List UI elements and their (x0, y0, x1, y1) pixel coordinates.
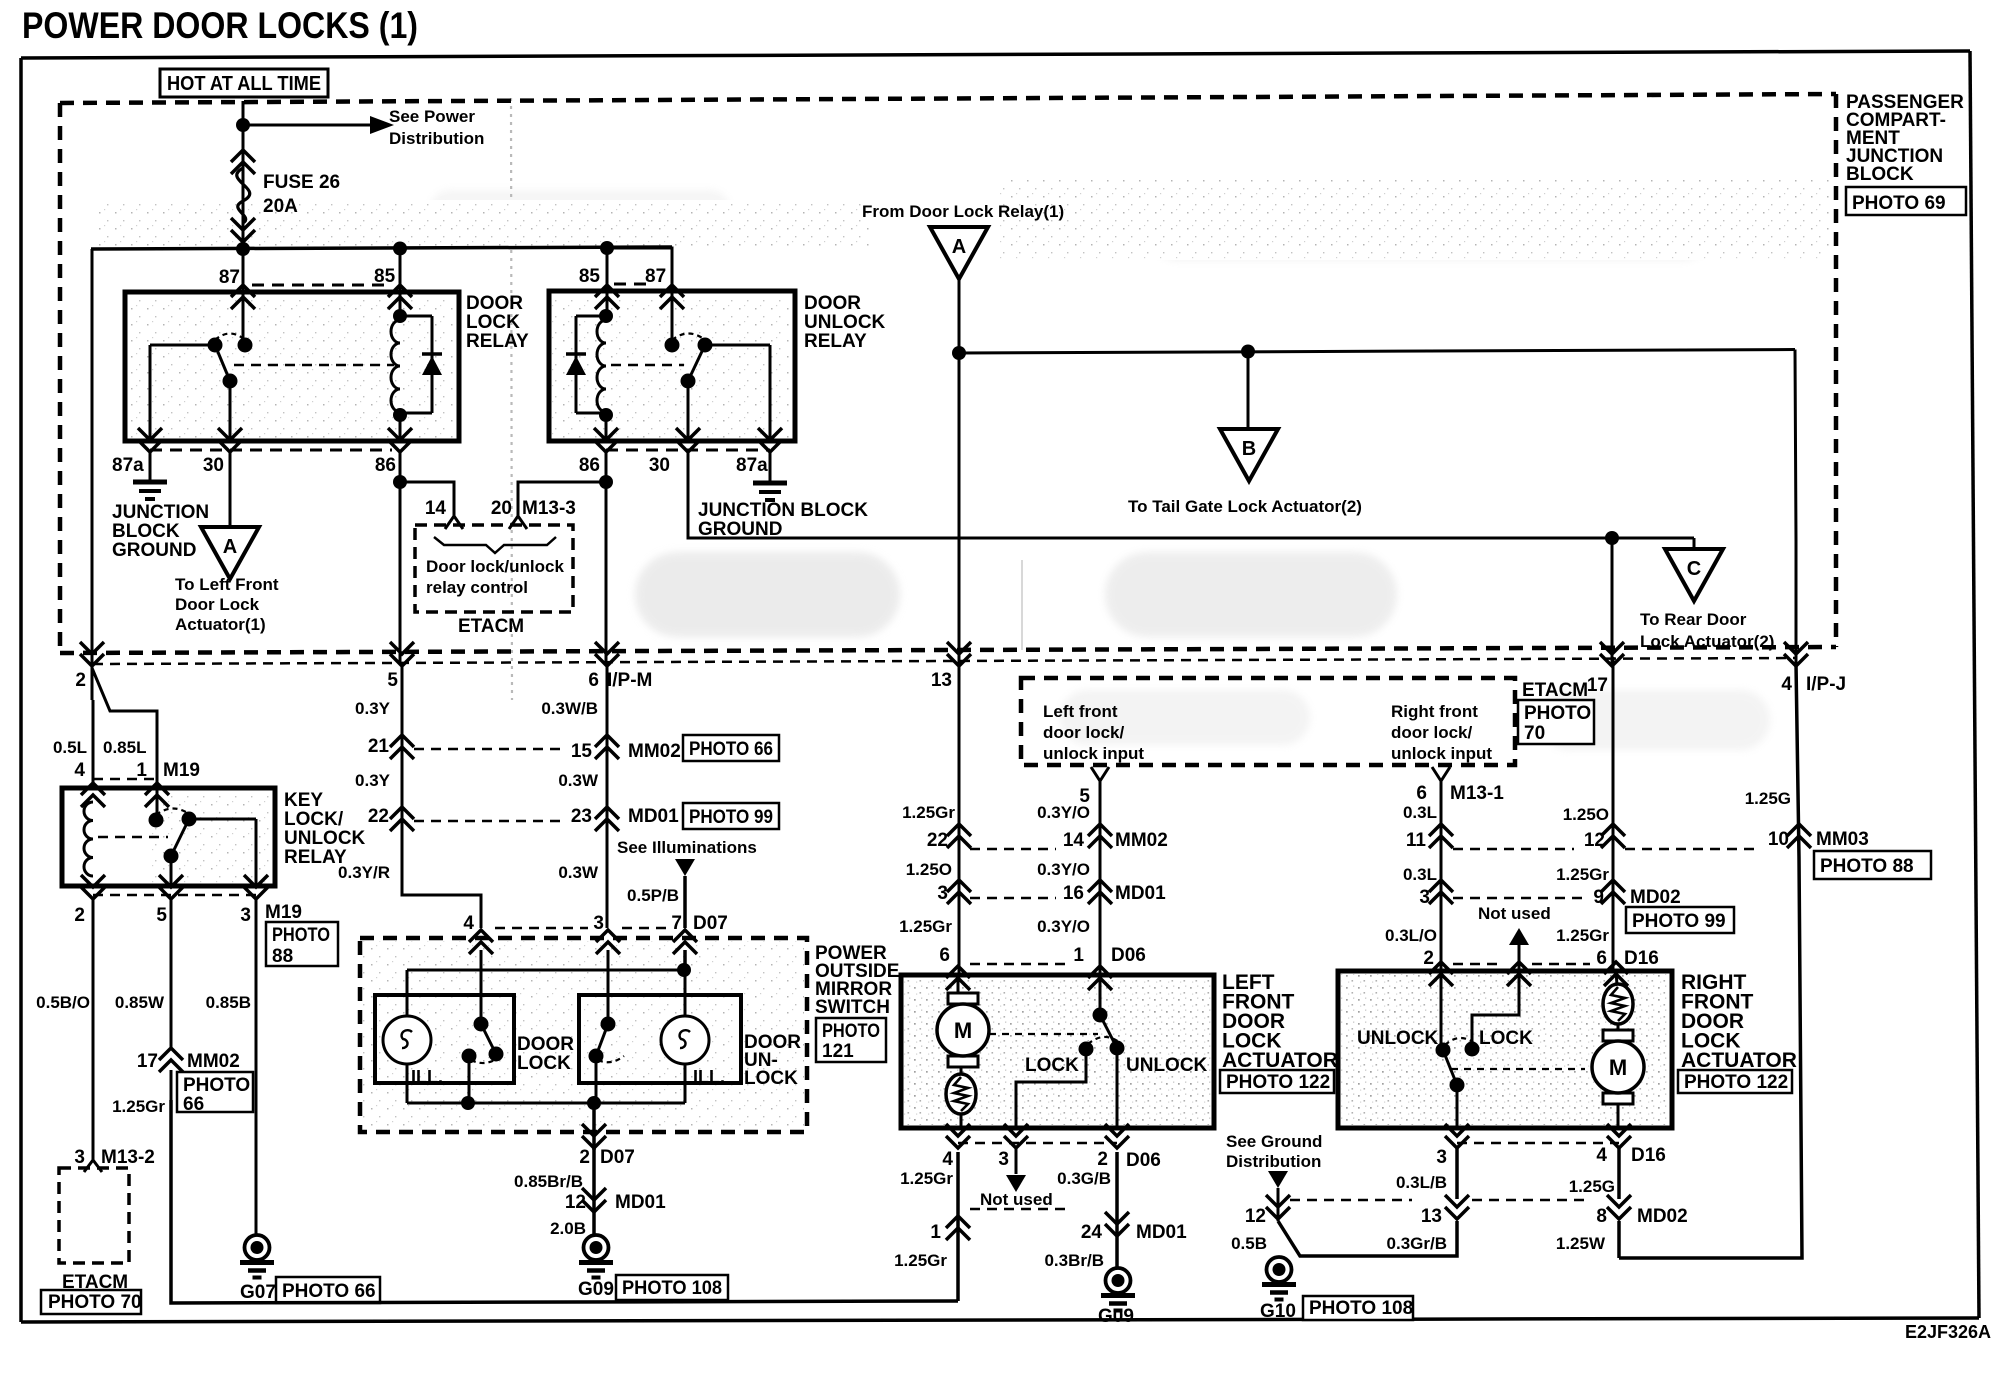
svg-text:14: 14 (425, 498, 447, 519)
svg-text:0.85W: 0.85W (115, 993, 165, 1012)
svg-text:1.25Gr: 1.25Gr (112, 1097, 165, 1116)
svg-text:M: M (1609, 1055, 1627, 1080)
svg-text:3: 3 (998, 1149, 1009, 1170)
svg-text:G07: G07 (240, 1282, 276, 1303)
svg-text:UNLOCK: UNLOCK (1357, 1028, 1439, 1049)
svg-text:PHOTO: PHOTO (272, 925, 330, 946)
svg-text:3: 3 (74, 1147, 85, 1168)
svg-text:1.25Gr: 1.25Gr (899, 917, 952, 936)
svg-text:ETACM: ETACM (458, 616, 524, 637)
svg-text:3: 3 (937, 883, 948, 904)
svg-text:DOOR: DOOR (804, 293, 861, 314)
svg-text:PHOTO 122: PHOTO 122 (1684, 1072, 1788, 1093)
svg-text:87: 87 (645, 266, 666, 287)
svg-text:66: 66 (183, 1094, 204, 1115)
svg-text:Distribution: Distribution (389, 129, 484, 148)
svg-text:Door Lock: Door Lock (175, 595, 260, 614)
svg-text:88: 88 (272, 946, 293, 967)
svg-text:1: 1 (1073, 945, 1084, 966)
svg-text:PHOTO 88: PHOTO 88 (1820, 856, 1914, 877)
svg-text:JUNCTION BLOCK: JUNCTION BLOCK (698, 500, 868, 521)
svg-text:86: 86 (375, 455, 396, 476)
svg-text:SWITCH: SWITCH (815, 997, 890, 1018)
svg-text:HOT AT ALL TIME: HOT AT ALL TIME (167, 73, 321, 95)
svg-text:D16: D16 (1624, 948, 1659, 969)
svg-text:MD02: MD02 (1630, 887, 1681, 908)
svg-text:MD01: MD01 (615, 1192, 666, 1213)
svg-text:0.5B/O: 0.5B/O (36, 993, 90, 1012)
svg-text:2: 2 (74, 905, 85, 926)
svg-text:0.85L: 0.85L (103, 738, 146, 757)
svg-text:21: 21 (368, 736, 390, 757)
svg-text:PHOTO 70: PHOTO 70 (48, 1292, 142, 1313)
svg-text:M13-3: M13-3 (522, 498, 576, 519)
svg-text:0.3Y/R: 0.3Y/R (338, 863, 390, 882)
svg-text:DOOR: DOOR (466, 293, 523, 314)
svg-text:1.25G: 1.25G (1569, 1177, 1615, 1196)
svg-text:6: 6 (588, 670, 599, 691)
svg-text:0.3Y: 0.3Y (355, 771, 391, 790)
svg-text:4: 4 (74, 760, 85, 781)
svg-text:87a: 87a (112, 455, 144, 476)
svg-text:6: 6 (939, 945, 950, 966)
svg-text:PHOTO: PHOTO (1524, 703, 1591, 724)
svg-text:2: 2 (75, 670, 86, 691)
svg-text:LOCK: LOCK (744, 1068, 798, 1089)
svg-text:9: 9 (1593, 887, 1604, 908)
svg-text:0.3W: 0.3W (558, 771, 599, 790)
svg-text:LOCK: LOCK (1025, 1055, 1079, 1076)
svg-text:2: 2 (579, 1147, 590, 1168)
svg-text:70: 70 (1524, 723, 1545, 744)
svg-text:JUNCTION: JUNCTION (112, 502, 209, 523)
svg-text:1.25Gr: 1.25Gr (1556, 926, 1609, 945)
svg-text:POWER DOOR LOCKS (1): POWER DOOR LOCKS (1) (22, 5, 418, 46)
svg-text:17: 17 (137, 1051, 158, 1072)
svg-text:20A: 20A (263, 196, 298, 217)
svg-text:G10: G10 (1260, 1301, 1296, 1322)
svg-text:D07: D07 (693, 913, 728, 934)
svg-text:RELAY: RELAY (804, 331, 867, 352)
svg-text:Actuator(1): Actuator(1) (175, 615, 266, 634)
svg-text:24: 24 (1081, 1222, 1103, 1243)
svg-text:From Door Lock Relay(1): From Door Lock Relay(1) (862, 202, 1064, 221)
svg-text:door lock/: door lock/ (1391, 723, 1473, 742)
svg-text:PHOTO 99: PHOTO 99 (689, 807, 773, 828)
svg-text:0.3L/O: 0.3L/O (1385, 926, 1437, 945)
svg-text:6: 6 (1596, 948, 1607, 969)
svg-text:6: 6 (1416, 783, 1427, 804)
svg-text:0.3L/B: 0.3L/B (1396, 1173, 1447, 1192)
svg-text:MD01: MD01 (1115, 883, 1166, 904)
svg-text:PHOTO: PHOTO (822, 1021, 880, 1042)
svg-text:PHOTO 108: PHOTO 108 (1309, 1298, 1413, 1319)
svg-text:12: 12 (1245, 1206, 1266, 1227)
svg-text:12: 12 (565, 1192, 586, 1213)
svg-text:4: 4 (942, 1149, 953, 1170)
svg-text:3: 3 (1419, 887, 1430, 908)
svg-text:87: 87 (219, 267, 240, 288)
svg-text:To Tail Gate Lock Actuator(2): To Tail Gate Lock Actuator(2) (1128, 497, 1362, 516)
svg-text:MD01: MD01 (1136, 1222, 1187, 1243)
svg-text:To Left Front: To Left Front (175, 575, 279, 594)
svg-text:0.3Y/O: 0.3Y/O (1037, 860, 1090, 879)
svg-text:PHOTO 69: PHOTO 69 (1852, 193, 1946, 214)
svg-text:10: 10 (1768, 829, 1789, 850)
svg-text:UNLOCK: UNLOCK (804, 312, 886, 333)
svg-text:G09: G09 (1098, 1306, 1134, 1327)
svg-text:2.0B: 2.0B (550, 1219, 586, 1238)
svg-text:D07: D07 (600, 1147, 635, 1168)
svg-text:ACTUATOR: ACTUATOR (1222, 1049, 1338, 1072)
svg-text:0.3W/B: 0.3W/B (541, 699, 598, 718)
svg-text:0.3Y/O: 0.3Y/O (1037, 917, 1090, 936)
svg-text:Door lock/unlock: Door lock/unlock (426, 557, 564, 576)
svg-text:relay control: relay control (426, 578, 528, 597)
svg-text:0.3G/B: 0.3G/B (1057, 1169, 1111, 1188)
svg-text:30: 30 (649, 455, 670, 476)
svg-text:0.5L: 0.5L (53, 738, 87, 757)
svg-text:G09: G09 (578, 1279, 614, 1300)
svg-text:13: 13 (931, 670, 952, 691)
svg-text:D16: D16 (1631, 1145, 1666, 1166)
svg-text:22: 22 (368, 806, 389, 827)
svg-text:unlock input: unlock input (1043, 744, 1144, 763)
svg-text:E2JF326A: E2JF326A (1905, 1322, 1991, 1342)
svg-text:2: 2 (1097, 1149, 1108, 1170)
svg-text:To Rear Door: To Rear Door (1640, 610, 1747, 629)
svg-text:MM02: MM02 (628, 741, 681, 762)
svg-text:5: 5 (387, 670, 398, 691)
svg-text:Not used: Not used (980, 1190, 1053, 1209)
svg-text:1.25Gr: 1.25Gr (902, 803, 955, 822)
svg-text:DOOR: DOOR (517, 1034, 574, 1055)
svg-text:15: 15 (571, 741, 593, 762)
svg-text:20: 20 (491, 498, 512, 519)
svg-text:BLOCK: BLOCK (1846, 164, 1914, 185)
svg-text:0.3Y/O: 0.3Y/O (1037, 803, 1090, 822)
svg-text:0.5B: 0.5B (1231, 1234, 1267, 1253)
svg-text:0.5P/B: 0.5P/B (627, 886, 679, 905)
svg-text:D06: D06 (1126, 1150, 1161, 1171)
svg-text:17: 17 (1587, 675, 1608, 696)
svg-text:0.85B: 0.85B (206, 993, 251, 1012)
svg-text:3: 3 (1436, 1147, 1447, 1168)
svg-text:4: 4 (463, 913, 474, 934)
svg-text:1.25W: 1.25W (1556, 1234, 1606, 1253)
svg-text:ILL.: ILL. (411, 1067, 443, 1087)
svg-text:Not used: Not used (1478, 904, 1551, 923)
svg-text:M19: M19 (163, 760, 200, 781)
svg-text:0.3Br/B: 0.3Br/B (1044, 1251, 1104, 1270)
svg-text:1.25Gr: 1.25Gr (1556, 865, 1609, 884)
svg-text:86: 86 (579, 455, 600, 476)
svg-text:LOCK/: LOCK/ (284, 809, 344, 830)
svg-text:GROUND: GROUND (112, 540, 196, 561)
svg-text:1.25O: 1.25O (906, 860, 952, 879)
svg-text:I/P-M: I/P-M (607, 670, 652, 691)
svg-text:RELAY: RELAY (466, 331, 529, 352)
svg-text:door lock/: door lock/ (1043, 723, 1125, 742)
svg-text:ILL.: ILL. (693, 1067, 725, 1087)
svg-text:PHOTO: PHOTO (183, 1075, 250, 1096)
svg-text:M19: M19 (265, 902, 302, 923)
svg-text:1.25G: 1.25G (1745, 789, 1791, 808)
svg-text:ACTUATOR: ACTUATOR (1681, 1049, 1797, 1072)
svg-text:1.25Gr: 1.25Gr (894, 1251, 947, 1270)
svg-text:Distribution: Distribution (1226, 1152, 1321, 1171)
svg-text:121: 121 (822, 1041, 854, 1062)
svg-text:11: 11 (1406, 830, 1427, 851)
svg-text:4: 4 (1596, 1145, 1607, 1166)
svg-text:D06: D06 (1111, 945, 1146, 966)
svg-text:C: C (1687, 558, 1701, 580)
svg-text:4: 4 (1781, 674, 1792, 695)
svg-text:MD02: MD02 (1637, 1206, 1688, 1227)
svg-text:unlock input: unlock input (1391, 744, 1492, 763)
svg-text:Right front: Right front (1391, 702, 1478, 721)
svg-text:LOCK: LOCK (1479, 1028, 1533, 1049)
svg-text:3: 3 (593, 913, 604, 934)
svg-text:PHOTO 66: PHOTO 66 (689, 739, 773, 760)
svg-text:0.3W: 0.3W (558, 863, 599, 882)
svg-text:LOCK: LOCK (466, 312, 520, 333)
svg-text:Left front: Left front (1043, 702, 1118, 721)
svg-text:See Power: See Power (389, 107, 475, 126)
svg-text:0.3L: 0.3L (1403, 803, 1437, 822)
svg-text:1.25Gr: 1.25Gr (900, 1169, 953, 1188)
svg-text:MD01: MD01 (628, 806, 679, 827)
svg-text:30: 30 (203, 455, 224, 476)
svg-text:KEY: KEY (284, 790, 323, 811)
svg-text:M13-1: M13-1 (1450, 783, 1504, 804)
svg-text:FUSE 26: FUSE 26 (263, 172, 340, 193)
svg-text:UNLOCK: UNLOCK (284, 828, 366, 849)
svg-text:PHOTO 122: PHOTO 122 (1226, 1072, 1330, 1093)
svg-text:0.85Br/B: 0.85Br/B (514, 1172, 583, 1191)
svg-text:M: M (954, 1018, 972, 1043)
svg-text:3: 3 (240, 905, 251, 926)
svg-text:B: B (1242, 438, 1256, 460)
svg-text:1.25O: 1.25O (1563, 805, 1609, 824)
svg-text:A: A (223, 536, 237, 558)
svg-text:M13-2: M13-2 (101, 1147, 155, 1168)
svg-text:See Illuminations: See Illuminations (617, 838, 757, 857)
svg-text:ETACM: ETACM (1522, 680, 1588, 701)
svg-text:7: 7 (671, 913, 682, 934)
svg-text:5: 5 (156, 905, 167, 926)
svg-text:85: 85 (579, 266, 601, 287)
svg-text:1: 1 (930, 1222, 941, 1243)
svg-text:I/P-J: I/P-J (1806, 674, 1846, 695)
svg-text:8: 8 (1596, 1206, 1607, 1227)
svg-text:2: 2 (1423, 948, 1434, 969)
svg-text:PHOTO 99: PHOTO 99 (1632, 911, 1726, 932)
svg-text:See Ground: See Ground (1226, 1132, 1322, 1151)
svg-text:BLOCK: BLOCK (112, 521, 180, 542)
svg-text:A: A (952, 236, 966, 258)
svg-text:22: 22 (927, 830, 948, 851)
svg-text:PHOTO 108: PHOTO 108 (622, 1278, 722, 1299)
svg-text:14: 14 (1063, 830, 1085, 851)
svg-text:Lock Actuator(2): Lock Actuator(2) (1640, 632, 1774, 651)
svg-text:PHOTO 66: PHOTO 66 (282, 1281, 376, 1302)
svg-text:23: 23 (571, 806, 592, 827)
svg-text:LOCK: LOCK (517, 1053, 571, 1074)
svg-text:87a: 87a (736, 455, 768, 476)
svg-text:16: 16 (1063, 883, 1084, 904)
svg-text:MM03: MM03 (1816, 829, 1869, 850)
svg-text:0.3Y: 0.3Y (355, 699, 391, 718)
svg-text:0.3Gr/B: 0.3Gr/B (1387, 1234, 1447, 1253)
svg-text:12: 12 (1584, 830, 1605, 851)
svg-text:0.3L: 0.3L (1403, 865, 1437, 884)
svg-text:MM02: MM02 (1115, 830, 1168, 851)
svg-text:13: 13 (1421, 1206, 1442, 1227)
svg-text:UNLOCK: UNLOCK (1126, 1055, 1208, 1076)
svg-text:MM02: MM02 (187, 1051, 240, 1072)
